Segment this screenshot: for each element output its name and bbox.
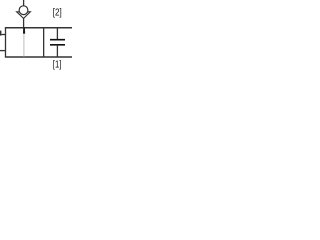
edge mark: cut-off symbol at left border	[0, 31, 1, 36]
pin stub (left, lower)	[0, 50, 6, 52]
wire: top rail	[5, 27, 72, 29]
sensor symbol: downward triangle	[17, 12, 31, 19]
capacitor plates	[50, 40, 65, 45]
sensor symbol: circle	[19, 6, 28, 15]
wire: bottom rail	[5, 56, 72, 58]
pin stub (left, upper)	[0, 34, 6, 36]
capacitor bottom lead	[56, 45, 58, 57]
box right edge / divider	[43, 28, 45, 57]
svg-text:[1]: [1]	[53, 59, 62, 70]
wire: sensor lead into box	[23, 18, 25, 28]
svg-text:[2]: [2]	[53, 7, 62, 18]
wire stub: dark lead end inside box	[23, 28, 25, 34]
gray guide line inside box	[23, 34, 25, 57]
box left edge	[5, 28, 7, 57]
capacitor top lead	[56, 28, 58, 40]
wire: top lead down to sensor symbol	[23, 0, 25, 6]
